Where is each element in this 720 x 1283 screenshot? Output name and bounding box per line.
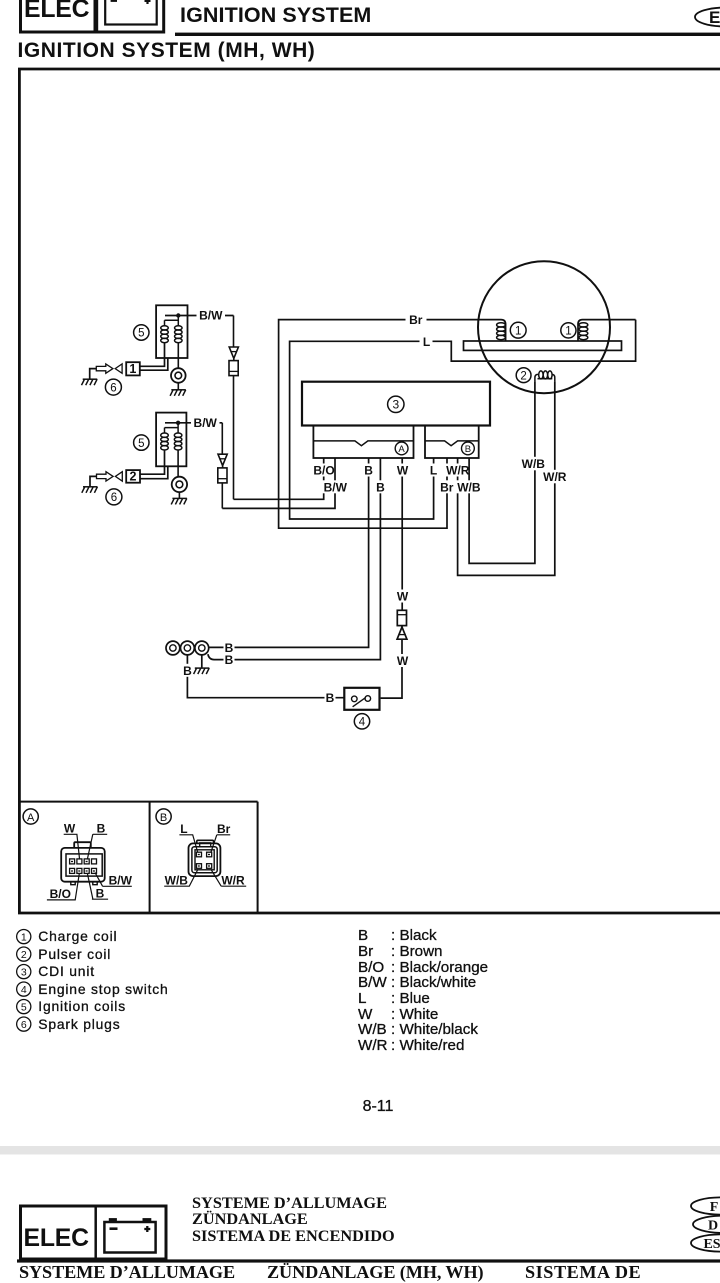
svg-text:B: B [225, 653, 234, 667]
spark plug cap 1 [171, 343, 186, 390]
pin leader lines A [47, 834, 132, 900]
svg-text:ES: ES [703, 1237, 720, 1252]
ground ring terminal 3 [201, 655, 203, 668]
svg-text:4: 4 [359, 717, 366, 729]
svg-text:E: E [709, 8, 720, 27]
main diagram border [19, 69, 720, 913]
svg-text:B/W: B/W [199, 309, 223, 323]
label 4 stop switch [354, 714, 369, 729]
header text: IGNITION SYSTEM [180, 3, 371, 28]
page 2 header ELEC [24, 1225, 89, 1253]
label B/O [311, 464, 337, 478]
charge coil left body [497, 320, 506, 341]
svg-text:W: W [397, 590, 409, 604]
connector B inner line with notch [425, 441, 479, 446]
header ELEC box [21, 0, 96, 32]
label B first [363, 464, 374, 478]
label Br at connector [438, 480, 456, 494]
page 2 bottom headings (cut) [19, 1262, 235, 1283]
charge coil right winding [579, 323, 588, 340]
color code list [358, 928, 488, 1053]
ring terminal 1 [166, 641, 180, 655]
label 1 right charge coil [561, 323, 576, 338]
label A panel [23, 809, 38, 824]
connector B pins [196, 852, 211, 868]
svg-text:B: B [160, 812, 167, 824]
wire L [290, 320, 636, 519]
pin labels A [50, 822, 133, 902]
label W mid [396, 590, 410, 604]
wires coil 2 to spark gap 2 [140, 450, 168, 479]
label B second [375, 480, 386, 494]
label B/W [322, 480, 350, 494]
wire B/W coil 1 to suppressor [165, 315, 234, 317]
svg-text:W/R: W/R [446, 464, 470, 478]
label B on wire 2 [224, 653, 235, 667]
spark gap 1 arrows [96, 364, 122, 373]
svg-text:B/W: B/W [109, 873, 133, 887]
ignition coil 1 box [156, 305, 187, 358]
label B panel [156, 809, 171, 824]
pulser coil (item 2) [535, 371, 555, 382]
ignition coil 2 box [156, 413, 186, 467]
svg-text:6: 6 [110, 382, 116, 394]
label B on switch wire [325, 691, 336, 705]
ignition coil 1 primary winding [161, 320, 179, 342]
page 2 header titles [192, 1195, 395, 1245]
page number [340, 1098, 416, 1116]
wire B second with elbow [208, 458, 381, 660]
legend item circles [17, 930, 31, 1032]
page 2 right ovals [691, 1197, 720, 1252]
label 1 left charge coil [510, 322, 526, 338]
label B/W coil 1 [197, 309, 226, 323]
svg-text:2: 2 [520, 370, 526, 382]
header right oval E [695, 8, 720, 28]
label W/R on pulser wire [541, 470, 570, 484]
legend list [38, 928, 168, 1033]
svg-text:1: 1 [515, 326, 521, 338]
ring terminal 3 [195, 641, 209, 655]
wire spark gap 1 to ground [90, 369, 97, 379]
svg-text:W/R: W/R [221, 874, 245, 888]
label W/R at connector [444, 464, 473, 478]
suppressor on W wire [397, 610, 407, 639]
svg-text:L: L [423, 335, 430, 349]
stop switch contacts [352, 696, 371, 707]
page 2 separator line [0, 1146, 720, 1155]
label B under ring 2 [182, 664, 193, 678]
label B [462, 442, 475, 455]
wires coil 1 to spark gap 1 [140, 343, 168, 371]
stop switch box [344, 688, 379, 710]
label Br top [406, 313, 427, 327]
label 2 pulser coil [516, 368, 531, 383]
svg-text:3: 3 [392, 398, 399, 412]
svg-text:2: 2 [130, 470, 137, 484]
svg-text:B: B [376, 480, 385, 494]
wire W/R [458, 381, 555, 575]
svg-text:B: B [97, 822, 106, 836]
svg-text:W/B: W/B [457, 480, 481, 494]
suppressor coil 2 [218, 423, 227, 509]
wire B first [209, 458, 369, 647]
svg-text:L: L [180, 822, 187, 836]
pin labels B [165, 822, 245, 887]
svg-text:B: B [465, 444, 471, 455]
svg-text:1: 1 [21, 931, 27, 943]
page 2 thick rule [17, 1259, 720, 1262]
label 3 CDI [388, 396, 404, 412]
CDI connector B housing [425, 426, 479, 459]
wire Br [279, 320, 497, 529]
junction dot coil 1 [176, 313, 180, 317]
charge coil left winding [497, 323, 506, 340]
pin leader lines B [164, 835, 246, 886]
label W/B on pulser wire [519, 457, 548, 471]
label A [395, 442, 408, 455]
label 5 coil 1 [134, 325, 149, 340]
svg-text:B/O: B/O [313, 464, 334, 478]
cylinder box 1 [126, 362, 140, 375]
page 2 battery icon [104, 1218, 155, 1252]
svg-text:1: 1 [565, 326, 571, 338]
svg-text:W: W [64, 822, 76, 836]
label L at connector [428, 464, 440, 478]
ground plug 1 [170, 390, 186, 396]
wire B/O [234, 458, 324, 499]
svg-text:B: B [364, 464, 373, 478]
wire B/W [222, 458, 335, 508]
label 6 plug 1 [105, 379, 121, 395]
label B on wire 1 [224, 641, 235, 655]
label 5 coil 2 [134, 435, 149, 450]
svg-text:A: A [27, 812, 35, 824]
svg-text:W/R: W/R [543, 470, 567, 484]
svg-text:F: F [710, 1200, 719, 1215]
ignition coil 2 primary winding [161, 428, 178, 450]
wire W upper [401, 458, 403, 610]
label W [396, 464, 409, 478]
label 6 plug 2 [106, 489, 122, 505]
connector A pins [70, 859, 97, 874]
svg-text:B/O: B/O [50, 887, 71, 901]
junction dot coil 2 [176, 421, 180, 425]
svg-text:B: B [183, 664, 192, 678]
charge coil right body [578, 320, 636, 341]
ground spark gap 2 [82, 487, 98, 493]
svg-text:W: W [397, 464, 409, 478]
svg-text:6: 6 [111, 492, 117, 504]
svg-text:Br: Br [409, 313, 423, 327]
svg-text:Br: Br [440, 480, 454, 494]
wire ring terminal 2 to stop switch [187, 655, 344, 698]
svg-text:W/B: W/B [165, 874, 189, 888]
svg-text:2: 2 [21, 949, 27, 961]
svg-text:W/B: W/B [522, 457, 546, 471]
ground plug 2 [171, 498, 187, 504]
wire W lower [381, 639, 402, 698]
svg-text:A: A [398, 444, 405, 455]
flywheel circle [478, 261, 610, 393]
stator core bar [464, 341, 622, 350]
cylinder box 2 [126, 470, 140, 483]
svg-text:Br: Br [217, 822, 231, 836]
svg-text:W: W [397, 654, 409, 668]
label W/B at connector [455, 480, 484, 494]
svg-text:L: L [430, 464, 437, 478]
ground spark gap 1 [82, 379, 98, 385]
wire B/W coil 2 to suppressor [165, 422, 222, 424]
svg-text:1: 1 [129, 362, 136, 376]
svg-text:B: B [96, 887, 105, 901]
wire spark gap 2 to ground [90, 476, 97, 486]
label W lower [396, 654, 410, 668]
CDI unit box [302, 382, 490, 426]
section title [18, 39, 316, 63]
connector A face [61, 842, 104, 885]
spark plug cap 2 [172, 450, 187, 498]
svg-text:4: 4 [21, 984, 27, 996]
header rule [175, 33, 720, 36]
header text: ELEC [24, 0, 89, 24]
detail panel frames A/B [19, 802, 257, 913]
svg-text:6: 6 [21, 1019, 27, 1031]
svg-text:5: 5 [138, 438, 144, 450]
svg-text:5: 5 [21, 1001, 27, 1013]
connector A inner line with notch [313, 441, 413, 446]
suppressor coil 1 [229, 316, 238, 500]
svg-text:B: B [326, 691, 335, 705]
label L top [420, 335, 433, 349]
svg-text:D: D [708, 1218, 718, 1233]
ring terminal 2 [181, 641, 195, 655]
svg-text:3: 3 [21, 966, 27, 978]
svg-text:5: 5 [138, 328, 144, 340]
page 2 ELEC box [21, 1206, 167, 1259]
spark gap 2 arrows [97, 472, 123, 481]
label B/W coil 2 [191, 416, 220, 430]
svg-text:B/W: B/W [194, 416, 218, 430]
ignition coil 2 secondary winding [174, 423, 182, 450]
wire W/B [469, 381, 535, 563]
connector B face [189, 840, 221, 876]
ignition coil 1 secondary winding [175, 316, 183, 343]
header battery box [97, 0, 164, 32]
CDI connector A housing [313, 426, 413, 459]
svg-text:B/W: B/W [324, 480, 348, 494]
